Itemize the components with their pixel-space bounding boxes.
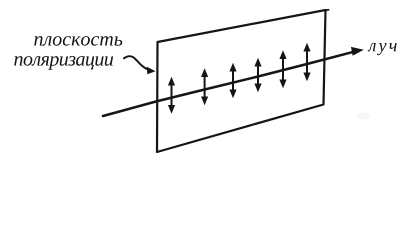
ray line (103, 51, 356, 116)
double arrow 4 (254, 58, 261, 92)
double arrow 2 (201, 68, 208, 105)
leader arrowhead (147, 67, 156, 74)
ray arrowhead (351, 47, 364, 56)
leader arrow from label to plane (124, 56, 149, 70)
label line 1: плоскость (34, 36, 122, 46)
label: луч (ray) (368, 43, 397, 55)
top-right corner overshoot tick (325, 9, 328, 12)
label line 2: поляризации (14, 56, 113, 70)
double arrow 3 (229, 63, 236, 98)
double arrow 6 (303, 43, 310, 81)
faint paper smudge (356, 113, 370, 120)
double arrow 5 (279, 50, 286, 88)
double arrow 1 (168, 77, 175, 114)
plane of polarization (parallelogram) (157, 10, 326, 152)
